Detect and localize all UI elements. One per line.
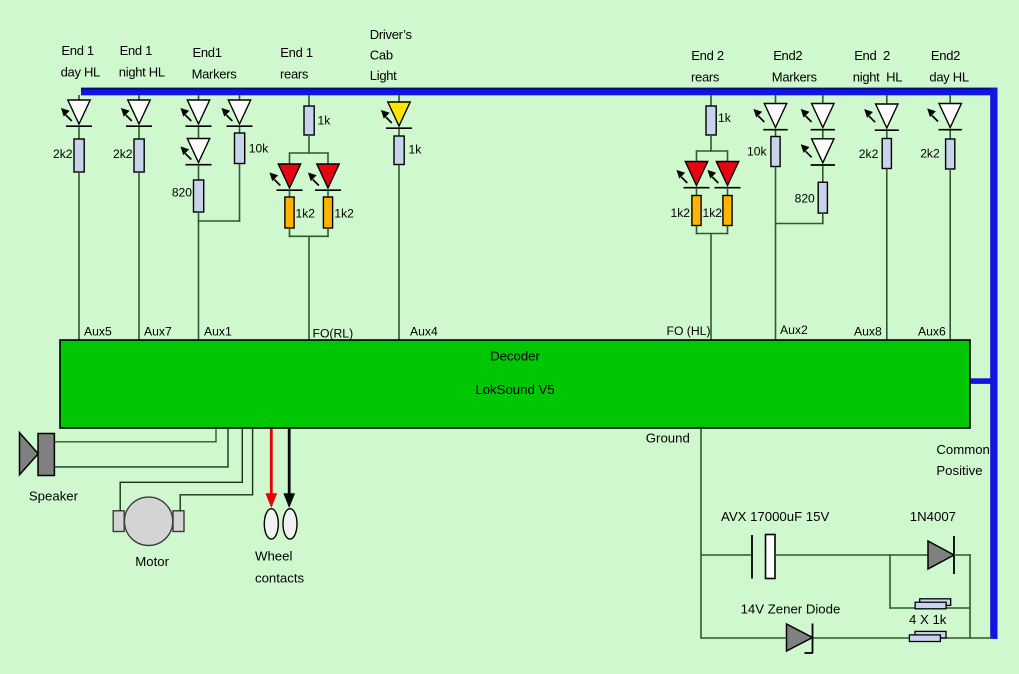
label 1k2 xyxy=(296,206,316,220)
svg-text:Positive: Positive xyxy=(936,463,982,478)
wire LED to 1k xyxy=(398,129,400,137)
wire diode to right rail xyxy=(954,554,971,556)
wire speaker bottom to decoder xyxy=(54,429,228,467)
svg-text:820: 820 xyxy=(172,186,192,200)
svg-text:Decoder: Decoder xyxy=(490,349,540,364)
LED End1 rear right (red) xyxy=(309,164,341,190)
wire LED to 10k resistor xyxy=(239,127,241,134)
wire between marker LEDs xyxy=(198,127,200,140)
wire 1k2 to join xyxy=(327,228,329,237)
wire bus to LED markers1 right xyxy=(239,95,241,101)
pin label Aux8 xyxy=(854,325,882,339)
wire LED to 1k2 xyxy=(696,188,698,197)
svg-text:contacts: contacts xyxy=(255,571,305,586)
svg-text:Aux8: Aux8 xyxy=(854,325,882,339)
label Wheel contacts xyxy=(255,549,305,586)
wire 1k to decoder Aux4 xyxy=(398,165,400,341)
wire LED to 1k2 xyxy=(727,188,729,197)
svg-text:1k: 1k xyxy=(318,114,332,128)
wire ground vertical xyxy=(700,429,702,639)
resistor 2k2 End2 day HL xyxy=(946,139,955,169)
wire bus to LED End2 day xyxy=(949,95,951,105)
resistor 4x1k upper pair xyxy=(915,599,951,609)
pin label Aux6 xyxy=(918,325,946,339)
svg-text:End 2: End 2 xyxy=(691,48,724,63)
svg-text:2k2: 2k2 xyxy=(53,147,73,161)
svg-text:rears: rears xyxy=(691,69,720,84)
label 1k xyxy=(718,111,732,125)
wire join to decoder Aux1 xyxy=(198,221,200,340)
svg-text:night HL: night HL xyxy=(853,69,902,84)
svg-text:End 2: End 2 xyxy=(854,48,890,63)
LED End1 marker upper (white) xyxy=(181,100,211,126)
resistor bottom pair xyxy=(909,631,946,641)
wire split to right red LED xyxy=(327,153,329,165)
wire LED to resistor xyxy=(886,131,888,140)
svg-text:Motor: Motor xyxy=(135,554,169,569)
label 2k2 xyxy=(859,147,879,161)
wire bus to LED markers2 right xyxy=(822,95,824,105)
svg-text:Aux4: Aux4 xyxy=(410,325,438,339)
wire bus to 1k resistor rears2 xyxy=(710,95,712,107)
pin label FO(RL) xyxy=(313,326,354,340)
label 14V Zener Diode xyxy=(741,602,841,617)
svg-text:day HL: day HL xyxy=(929,69,968,84)
wire bottom rail xyxy=(701,637,994,639)
wire speaker top to decoder xyxy=(54,429,216,442)
label Motor xyxy=(135,554,169,569)
svg-text:Driver’s: Driver’s xyxy=(370,27,413,42)
wire LED to 1k2 xyxy=(327,190,329,198)
svg-text:End2: End2 xyxy=(931,48,960,63)
LED End1 marker right (white) xyxy=(222,100,252,126)
LED End2 rear left (red) xyxy=(677,162,709,188)
wire bus to cab LED xyxy=(398,95,400,103)
svg-text:Aux1: Aux1 xyxy=(204,325,232,339)
wire LED to resistor xyxy=(138,127,140,140)
wire black wheel pickup arrow xyxy=(284,429,295,508)
svg-text:End 1: End 1 xyxy=(120,43,153,58)
label 1k2 xyxy=(334,206,354,220)
svg-text:End 1: End 1 xyxy=(280,45,313,60)
label End 1 day HL xyxy=(61,43,100,80)
wire common-positive stub to decoder xyxy=(970,378,991,384)
label 10k xyxy=(747,145,767,159)
wire bus to LED markers1 left xyxy=(198,95,200,101)
svg-text:rears: rears xyxy=(280,67,309,82)
wire common-positive bus top xyxy=(81,88,998,96)
wire 1k to split xyxy=(308,135,310,154)
label 2k2 xyxy=(113,147,133,161)
decoder LokSound V5 xyxy=(60,340,970,428)
label 1k2 xyxy=(671,206,691,220)
LED End1 night HL (white) xyxy=(122,100,152,126)
wire LED to 820 resistor xyxy=(198,165,200,181)
resistor 820 End1 markers xyxy=(194,180,204,212)
resistor 1k2 left xyxy=(692,196,701,226)
wire split to left red LED xyxy=(289,153,291,165)
wire cap to junction xyxy=(775,554,891,556)
resistor 1k2 right xyxy=(723,196,732,226)
svg-text:1k2: 1k2 xyxy=(703,206,723,220)
svg-text:Aux5: Aux5 xyxy=(84,325,112,339)
svg-text:Markers: Markers xyxy=(772,69,818,84)
wire markers2 join xyxy=(775,223,824,225)
wire 1k to split xyxy=(710,135,712,152)
label 1k xyxy=(318,114,332,128)
svg-text:Markers: Markers xyxy=(192,67,238,82)
resistor 1k End2 rears xyxy=(706,106,716,135)
resistor 1k End1 rears xyxy=(304,106,314,135)
pin label Aux4 xyxy=(410,325,438,339)
wire junction to diode xyxy=(890,554,929,556)
label End 2 rears xyxy=(691,48,724,85)
wire LED to 1k2 xyxy=(289,190,291,198)
wire bus to 1k resistor rears1 xyxy=(308,95,310,107)
LED Driver's Cab Light (yellow) xyxy=(382,102,412,128)
wire motor right to decoder xyxy=(180,429,252,511)
wire bus to LED End1 night HL xyxy=(138,95,140,101)
resistor 2k2 End2 night HL xyxy=(882,139,891,169)
wire rears2 join xyxy=(696,233,729,235)
wire split to left red LED xyxy=(696,151,698,163)
label Driver's Cab Light xyxy=(370,27,413,83)
wire resistor to decoder Aux7 xyxy=(138,172,140,340)
label 10k xyxy=(249,142,269,156)
svg-text:10k: 10k xyxy=(747,145,767,159)
capacitor AVX 17000uF 15V xyxy=(752,535,775,579)
svg-text:1N4007: 1N4007 xyxy=(910,509,956,524)
wire resistor row xyxy=(890,607,970,609)
resistor 1k2 right xyxy=(323,197,332,228)
wire split to right red LED xyxy=(727,151,729,163)
wire rears1 join xyxy=(289,235,329,237)
LED End2 marker upper (white) xyxy=(802,104,836,130)
wire rears1 split xyxy=(289,152,329,154)
svg-text:End2: End2 xyxy=(773,48,802,63)
svg-text:day HL: day HL xyxy=(61,65,100,80)
wire 820 to join xyxy=(198,212,200,222)
wire bus to LED End1 day HL xyxy=(78,95,80,101)
zener diode 14V xyxy=(787,624,813,654)
wire common-positive bus right vertical xyxy=(990,88,997,639)
LED End1 marker lower (white) xyxy=(181,139,211,165)
motor xyxy=(113,497,184,545)
pin label Aux7 xyxy=(144,325,172,339)
wire LED to resistor xyxy=(78,127,80,140)
wire 820 to join xyxy=(822,213,824,224)
label End2 day HL xyxy=(929,48,968,85)
resistor 820 End2 markers xyxy=(818,182,827,213)
label 820 xyxy=(795,191,815,205)
wheel contact left xyxy=(264,509,278,539)
wire motor left to decoder xyxy=(120,429,242,511)
pin label Aux5 xyxy=(84,325,112,339)
speaker xyxy=(20,433,55,476)
wire rears2 split xyxy=(696,150,729,152)
svg-text:14V Zener Diode: 14V Zener Diode xyxy=(741,602,841,617)
svg-text:Light: Light xyxy=(370,68,397,83)
svg-text:LokSound V5: LokSound V5 xyxy=(475,382,554,397)
pin label FO (HL) xyxy=(667,324,711,338)
wire join to decoder FO(RL) xyxy=(308,236,310,340)
svg-text:Wheel: Wheel xyxy=(255,549,292,564)
svg-text:1k2: 1k2 xyxy=(296,206,316,220)
label 2k2 xyxy=(53,147,73,161)
wire bus to LED markers2 left xyxy=(775,95,777,105)
svg-text:FO (HL): FO (HL) xyxy=(667,324,711,338)
label Speaker xyxy=(29,489,79,504)
svg-text:Aux2: Aux2 xyxy=(780,323,808,337)
svg-text:Aux7: Aux7 xyxy=(144,325,172,339)
wire 1k2 to join xyxy=(727,226,729,235)
svg-text:1k2: 1k2 xyxy=(334,206,354,220)
label 1k2 xyxy=(703,206,723,220)
svg-text:1k2: 1k2 xyxy=(671,206,691,220)
svg-text:2k2: 2k2 xyxy=(920,147,940,161)
wire resistor to decoder Aux5 xyxy=(78,172,80,340)
LED End2 night HL (white) xyxy=(865,104,899,130)
resistor 2k2 End1 day HL xyxy=(74,139,84,172)
label 1N4007 xyxy=(910,509,956,524)
wire right rail vertical xyxy=(969,554,971,639)
wire LED to 820 xyxy=(822,166,824,183)
label End 1 night HL xyxy=(119,43,165,80)
resistor 1k cab light xyxy=(394,136,404,165)
LED End1 day HL (white) xyxy=(62,100,92,126)
wire red wheel pickup arrow xyxy=(266,429,277,508)
wire resistor to decoder Aux6 xyxy=(949,169,951,340)
svg-text:FO(RL): FO(RL) xyxy=(313,326,354,340)
label End2 Markers xyxy=(772,48,818,85)
svg-text:Common: Common xyxy=(936,442,990,457)
svg-text:Cab: Cab xyxy=(370,48,393,63)
svg-text:Aux6: Aux6 xyxy=(918,325,946,339)
svg-text:1k: 1k xyxy=(409,142,423,156)
label AVX 17000uF 15V xyxy=(721,509,829,524)
svg-text:4 X 1k: 4 X 1k xyxy=(909,612,947,627)
label Ground xyxy=(646,431,690,446)
wire 1k2 to join xyxy=(289,228,291,237)
pin label Aux2 xyxy=(780,323,808,337)
label End1 Markers xyxy=(192,45,238,81)
wire LED to 10k xyxy=(775,131,777,138)
wire between marker LEDs xyxy=(822,131,824,140)
label 1k xyxy=(409,142,423,156)
wire mid rail vertical xyxy=(889,554,891,609)
LED End2 day HL (white) xyxy=(928,104,962,130)
LED End2 marker left (white) xyxy=(754,104,788,130)
wire 10k to join xyxy=(775,167,777,225)
wire 10k to join xyxy=(239,164,241,222)
LED End1 rear left (red) xyxy=(270,164,302,190)
svg-text:night HL: night HL xyxy=(119,65,165,80)
svg-text:AVX 17000uF 15V: AVX 17000uF 15V xyxy=(721,509,829,524)
svg-text:1k: 1k xyxy=(718,111,732,125)
pin label Aux1 xyxy=(204,325,232,339)
svg-text:Speaker: Speaker xyxy=(29,489,79,504)
svg-text:End 1: End 1 xyxy=(61,43,94,58)
label Common Positive xyxy=(936,442,990,478)
wire top energy row left xyxy=(701,554,753,556)
svg-text:Ground: Ground xyxy=(646,431,690,446)
resistor 10k End2 markers xyxy=(771,137,780,167)
svg-text:10k: 10k xyxy=(249,142,269,156)
wire markers1 join xyxy=(198,220,241,222)
wire LED to resistor xyxy=(949,131,951,141)
svg-text:End1: End1 xyxy=(193,45,222,60)
resistor 1k2 left xyxy=(285,197,294,228)
wire bus to LED End2 night xyxy=(886,95,888,105)
wire 1k2 to join xyxy=(696,226,698,235)
label 4 X 1k xyxy=(909,612,947,627)
diode 1N4007 xyxy=(928,536,954,574)
svg-text:820: 820 xyxy=(795,191,815,205)
LED End2 rear right (red) xyxy=(708,162,740,188)
LED End2 marker lower (white) xyxy=(802,139,836,165)
wire join to decoder Aux2 xyxy=(775,224,777,341)
resistor 2k2 End1 night HL xyxy=(134,139,144,172)
svg-text:2k2: 2k2 xyxy=(859,147,879,161)
wire join to decoder FO (HL) xyxy=(710,234,712,341)
svg-text:2k2: 2k2 xyxy=(113,147,133,161)
wire resistor to decoder Aux8 xyxy=(886,169,888,341)
label 2k2 xyxy=(920,147,940,161)
wheel contact right xyxy=(283,509,297,539)
label 820 xyxy=(172,186,192,200)
label End 1 rears xyxy=(280,45,313,81)
resistor 10k End1 markers xyxy=(235,133,245,164)
label End 2 night HL xyxy=(853,48,902,85)
